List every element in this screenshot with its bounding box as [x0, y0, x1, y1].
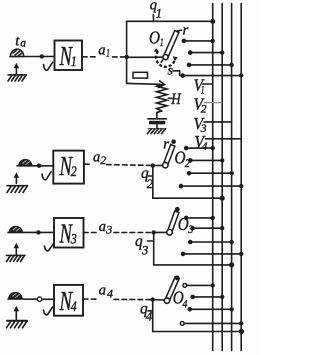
dashed wire a1: [83, 56, 127, 58]
svg-text:4: 4: [107, 286, 113, 300]
disturbance check mark at N4 input: [44, 307, 53, 315]
svg-text:3: 3: [141, 244, 148, 258]
svg-text:a: a: [99, 219, 106, 235]
label V1 with tick to bus V1: [194, 76, 213, 97]
label a4: [99, 282, 113, 300]
label H: [168, 91, 182, 108]
tick at lever tip O1: [178, 29, 182, 32]
bus wire V3 vertical: [231, 4, 233, 351]
label O3: [178, 214, 193, 236]
contact stub O3 third to bus V3: [188, 240, 234, 245]
q2 wire down and to bus V2: [153, 166, 222, 199]
label V3 with tick to bus V3: [194, 114, 232, 135]
contact stub O2 third to bus V3: [187, 171, 234, 176]
contact stub O2 fourth to bus V4: [179, 184, 244, 189]
label O2: [175, 148, 190, 170]
label a1: [98, 43, 110, 60]
svg-text:O: O: [149, 27, 160, 47]
contact stub O4 second to bus V2: [190, 295, 224, 300]
svg-text:a: a: [99, 282, 106, 298]
pivot of lever O1: [163, 55, 168, 60]
tip dot of lever O3: [175, 207, 180, 212]
node dot a3: [152, 230, 156, 234]
dashed rotation arc of O1: [154, 48, 178, 66]
svg-text:1: 1: [71, 54, 77, 70]
contact stub O1 second to bus V2: [188, 50, 225, 55]
ground hatch under sensor 1: [8, 75, 27, 81]
svg-text:3: 3: [105, 222, 112, 236]
svg-text:a: a: [98, 43, 105, 59]
node dot a4: [151, 297, 155, 301]
wire a1 node to O1 pivot: [127, 56, 163, 58]
contact stub O3 first to bus V1: [184, 216, 215, 221]
open junction circle row 4: [37, 297, 41, 301]
arrowhead to heater: [159, 81, 165, 88]
dashed wire a4: [83, 298, 152, 301]
thermal capacitor bottom plate: [149, 121, 165, 125]
junction dot row 3: [36, 230, 40, 234]
svg-text:2: 2: [71, 164, 77, 180]
wire capacitor to ground: [156, 124, 158, 128]
disturbance check mark at N1 input: [44, 62, 53, 70]
block N2: [53, 151, 84, 184]
dashed wire a3: [84, 232, 154, 234]
ground hatch under sensor 2: [7, 186, 28, 193]
block N1: [55, 41, 83, 71]
label N4: [59, 286, 77, 316]
label V2 with tick to bus V2: [194, 95, 223, 116]
sensor dome row 2: [19, 160, 32, 166]
label q1: [150, 0, 162, 21]
motor box inside O1 housing: [133, 72, 148, 78]
svg-text:2: 2: [100, 153, 106, 167]
sensor dome row 3: [9, 226, 22, 232]
label O1: [149, 27, 164, 49]
bus wire V1 vertical: [212, 4, 214, 351]
pivot of lever O4: [164, 298, 169, 303]
tip dot of lever O2: [171, 139, 176, 144]
switch lever O3: [167, 211, 179, 233]
wire sensor3 to N3: [8, 231, 54, 233]
contact stub O4 fourth to bus V4: [180, 321, 243, 325]
node dot a1 at O1 housing: [125, 55, 129, 59]
junction dot row 1: [40, 54, 44, 58]
O1 housing top edge wire to bus V1: [127, 20, 213, 22]
label q3: [135, 233, 154, 258]
bus wire V2 vertical: [221, 4, 223, 351]
contact stub O1-s to bus V4: [180, 73, 243, 78]
bus wire V4 vertical: [240, 4, 242, 351]
svg-text:4: 4: [202, 141, 208, 153]
heater coil H: [157, 85, 167, 112]
wire sensor1 to N1: [10, 56, 55, 58]
node dot q4 on bus V4: [239, 329, 244, 334]
label a3: [99, 219, 113, 237]
svg-text:H: H: [170, 91, 182, 108]
label ta (sensor 1 temperature): [15, 33, 26, 49]
wire coil to thermal capacitor: [157, 111, 162, 119]
node dot a2: [151, 163, 155, 167]
s contact bracket: [173, 71, 180, 76]
block N4: [54, 285, 83, 316]
svg-text:4: 4: [71, 299, 77, 315]
label q2: [141, 165, 153, 191]
block N3: [54, 218, 84, 248]
label q4: [140, 301, 153, 324]
svg-text:r: r: [163, 136, 169, 152]
wire a2 node to O2 pivot: [153, 164, 163, 166]
svg-text:4: 4: [183, 297, 188, 311]
tip dot of lever O4: [175, 276, 180, 281]
label N3: [59, 219, 77, 249]
disturbance check mark at N2 input: [42, 172, 51, 180]
switch lever O1: [163, 31, 179, 59]
svg-text:2: 2: [185, 156, 190, 170]
arrow under sensor 4: [14, 306, 20, 320]
contact stub O4 third to bus V3: [188, 307, 234, 312]
ground hatch under H: [148, 129, 166, 134]
junction dot row 2: [37, 164, 41, 168]
svg-text:1: 1: [160, 35, 164, 49]
ground hatch under sensor 4: [7, 321, 28, 328]
wire sensor4 to N4: [8, 298, 54, 300]
O1 housing bottom edge: [127, 82, 160, 85]
node dot q2 on bus V2: [220, 196, 225, 201]
q4 wire down and to bus V4: [153, 300, 242, 332]
disturbance check mark at N3 input: [45, 244, 54, 251]
sensor dome row 1: [11, 49, 24, 56]
svg-text:a: a: [20, 38, 26, 50]
svg-text:1: 1: [106, 46, 110, 60]
wire a4 node to O4 pivot: [153, 299, 164, 301]
label a2: [93, 150, 106, 167]
arrow under sensor 3: [14, 243, 20, 255]
switch lever O2: [163, 145, 175, 167]
pivot of lever O2: [163, 163, 168, 168]
contact stub O3 second to bus V2: [190, 226, 224, 231]
node dot q1 on bus V1: [210, 19, 215, 24]
label O4: [173, 287, 188, 310]
q3 wire down and to bus V3: [154, 232, 232, 265]
label N1: [59, 41, 77, 71]
contact stub O1 third to bus V3: [187, 63, 234, 68]
svg-text:1: 1: [156, 7, 162, 21]
label N2: [59, 151, 77, 181]
contact stub O3 fourth to bus V4: [181, 252, 244, 257]
contact stub O2 first to bus V1: [184, 146, 215, 151]
arrow under sensor 2: [14, 172, 20, 183]
contact stub O1-r to bus V1: [182, 39, 215, 44]
node dot q3 on bus V3: [229, 262, 234, 267]
dashed wire a2: [85, 164, 153, 165]
pivot of lever O3: [167, 230, 173, 236]
arrow under sensor 1: [14, 63, 20, 75]
thermal capacitor top plate: [148, 118, 167, 120]
wire a3 node to O3 pivot: [154, 231, 167, 233]
O1 housing left edge: [126, 21, 128, 83]
wire sensor2 to N2: [17, 165, 53, 167]
label V4 with tick to bus V4: [195, 132, 242, 153]
sensor dome row 4: [9, 293, 22, 299]
svg-text:4: 4: [146, 310, 152, 324]
svg-text:r: r: [183, 23, 189, 39]
ground hatch under sensor 3: [7, 255, 26, 261]
svg-text:3: 3: [70, 232, 77, 248]
svg-text:a: a: [93, 150, 100, 166]
contact stub O4 first to bus V1: [183, 283, 215, 287]
switch lever O4: [165, 277, 179, 302]
contact stub O2 second to bus V2: [188, 158, 224, 163]
